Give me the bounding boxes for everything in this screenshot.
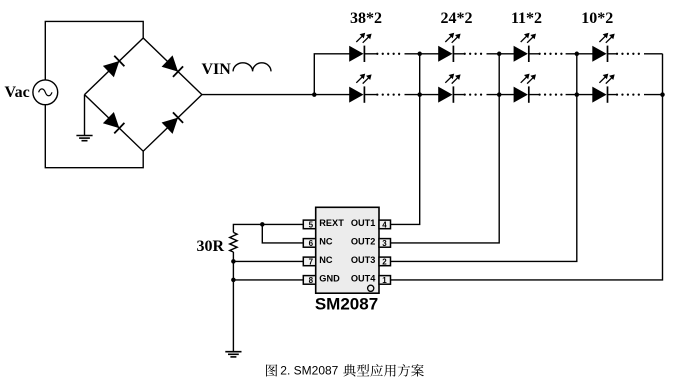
svg-text:VIN: VIN — [202, 61, 232, 78]
wire: OUT4 net from LED tap to pin — [390, 54, 662, 280]
wire: dotted continuation top row, string 3 — [540, 53, 566, 55]
svg-text:7: 7 — [309, 257, 314, 266]
pin box 4 (right) — [379, 220, 391, 229]
ground (bridge) — [76, 136, 92, 141]
svg-text:REXT: REXT — [319, 218, 344, 228]
svg-text:5: 5 — [309, 220, 314, 229]
junction: tap 3 bottom rail — [575, 92, 580, 97]
svg-text:8: 8 — [309, 276, 314, 285]
pin box 7 (left) — [303, 257, 315, 266]
wire: REXT pin to resistor — [233, 224, 303, 232]
wire: NC pin6 jumper to REXT net — [262, 224, 303, 243]
diode D2 (bridge top-right) — [162, 55, 184, 77]
LED string 3 top row — [514, 33, 536, 62]
wire: GND pin8 to ground net — [233, 279, 303, 281]
wire: AC bottom loop — [45, 105, 143, 168]
svg-text:NC: NC — [319, 255, 333, 265]
wire: resistor bottom to ground — [232, 252, 234, 352]
bridge rectifier frame — [85, 38, 202, 151]
wire: dotted continuation top row, string 1 — [377, 53, 404, 55]
wire: dotted continuation bottom row, string 1 — [377, 93, 404, 95]
pin box 2 (right) — [379, 257, 391, 266]
junction: pin8 on ground net — [231, 278, 236, 283]
svg-text:2. SM2087: 2. SM2087 — [280, 363, 338, 377]
svg-text:Vac: Vac — [5, 84, 30, 101]
svg-text:3: 3 — [382, 239, 387, 248]
wire: OUT3 net from LED tap to pin — [390, 54, 576, 262]
svg-text:6: 6 — [309, 239, 314, 248]
LED string 4 top row — [592, 33, 614, 62]
junction: pin7 on ground net — [231, 259, 236, 264]
wire: OUT2 net from LED tap to pin — [390, 54, 499, 243]
LED string 3 bottom row — [514, 74, 536, 103]
svg-text:NC: NC — [319, 237, 333, 247]
LED string 2 top row — [438, 33, 460, 62]
wire: riser to top LED row — [314, 54, 349, 95]
svg-text:OUT4: OUT4 — [351, 274, 376, 284]
svg-text:38*2: 38*2 — [350, 10, 382, 27]
junction: riser on VIN rail — [312, 92, 317, 97]
diode D4 (bridge bottom-right) — [162, 112, 184, 134]
wire: top LED row rail — [364, 53, 662, 55]
LED string 4 bottom row — [592, 74, 614, 103]
wire: dotted continuation top row, string 4 — [617, 53, 644, 55]
pin box 3 (right) — [379, 239, 391, 248]
pin box 5 (left) — [303, 220, 315, 229]
junction: tap 2 top rail — [497, 52, 502, 57]
svg-text:24*2: 24*2 — [441, 10, 473, 27]
svg-text:OUT2: OUT2 — [351, 237, 376, 247]
pin-1 indicator circle — [368, 285, 374, 291]
junction: tap 3 top rail — [575, 52, 580, 57]
svg-text:GND: GND — [319, 274, 340, 284]
inductor coil symbol — [233, 63, 271, 72]
pin box 1 (right) — [379, 276, 391, 285]
svg-text:4: 4 — [382, 220, 387, 229]
svg-text:11*2: 11*2 — [511, 10, 542, 27]
wire: dotted continuation bottom row, string 3 — [540, 93, 566, 95]
wire: dotted continuation bottom row, string 2 — [465, 93, 487, 95]
pin box 8 (left) — [303, 276, 315, 285]
wire: AC top loop — [45, 21, 143, 80]
svg-text:SM2087: SM2087 — [315, 295, 378, 314]
AC source Vac — [33, 80, 58, 105]
wire: VIN rail (bottom LED row) — [202, 94, 663, 96]
resistor R1 30R — [230, 232, 237, 252]
diode D1 (bridge top-left) — [103, 55, 125, 77]
wire: bridge left vertex to ground — [84, 95, 86, 136]
wire: dotted continuation bottom row, string 4 — [617, 93, 644, 95]
wire: NC pin7 to ground net — [233, 260, 303, 262]
svg-text:2: 2 — [382, 257, 387, 266]
svg-text:30R: 30R — [197, 238, 225, 255]
LED string 1 bottom row — [349, 74, 371, 103]
wire: OUT1 net from LED tap to pin — [390, 54, 419, 225]
svg-text:1: 1 — [382, 276, 387, 285]
svg-text:OUT1: OUT1 — [351, 218, 376, 228]
junction: tap 1 top rail — [417, 52, 422, 57]
junction: tap 2 bottom rail — [497, 92, 502, 97]
svg-text:10*2: 10*2 — [581, 10, 613, 27]
LED string 2 bottom row — [438, 74, 460, 103]
op-amp/driver IC U1 SM2087 body — [316, 207, 379, 293]
junction: tap 4 bottom rail — [660, 92, 665, 97]
junction: NC jumper on REXT wire — [260, 222, 265, 227]
junction: tap 1 bottom rail — [417, 92, 422, 97]
caption: figure 2 SM2087 typical application — [266, 363, 424, 377]
wire: dotted continuation top row, string 2 — [465, 53, 487, 55]
LED string 1 top row — [349, 33, 371, 62]
pin box 6 (left) — [303, 239, 315, 248]
diode D3 (bridge bottom-left) — [103, 112, 125, 134]
ground (resistor/IC) — [225, 352, 241, 357]
svg-text:OUT3: OUT3 — [351, 255, 376, 265]
